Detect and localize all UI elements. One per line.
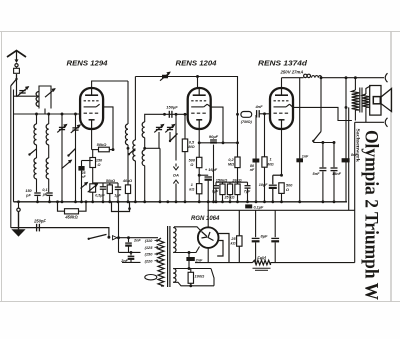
svg-text:(110: (110 — [145, 238, 153, 243]
node V2 top — [196, 75, 199, 78]
scan frame right edge — [390, 32, 392, 302]
svg-text:nF: nF — [250, 168, 255, 172]
wire loop under bus — [112, 202, 130, 212]
wire cathode branch — [273, 174, 282, 176]
svg-text:0,5µF: 0,5µF — [95, 194, 105, 198]
svg-text:MΩ: MΩ — [267, 162, 273, 166]
wire left earth line — [10, 86, 12, 228]
capacitor 2nF HT blob — [188, 253, 190, 258]
coil L8 secondary — [142, 122, 145, 138]
coil L6 anode — [125, 124, 128, 145]
wire trimmer down bus — [159, 148, 161, 202]
field coil Feld — [253, 260, 271, 265]
wire mains line 3 — [122, 261, 141, 263]
trimmer small — [81, 183, 88, 189]
wire V1 grid line — [14, 113, 82, 115]
rectifier tube RGN 1064 — [198, 227, 219, 248]
speaker horn — [381, 89, 392, 112]
capacitor 7uF bank right — [247, 182, 249, 185]
wire ground stem — [18, 212, 20, 230]
resistor 1k — [197, 184, 202, 194]
terminal hook top right — [385, 73, 387, 82]
bus2 supply rail — [208, 209, 355, 211]
wire tone link — [312, 141, 314, 143]
svg-text:100Ω: 100Ω — [195, 274, 206, 279]
svg-text:Ω: Ω — [285, 188, 289, 192]
switch S4 interstage — [129, 149, 136, 155]
switch S5 — [170, 134, 178, 142]
resistor 26k — [237, 182, 239, 184]
svg-text:DA: DA — [173, 172, 179, 177]
capacitor 8nF blob right — [342, 158, 350, 162]
arrow contact — [113, 236, 118, 240]
wire caps to bus — [37, 196, 39, 202]
node L8 bottom junction — [144, 138, 146, 149]
svg-text:25: 25 — [230, 237, 236, 241]
bus junction dots — [17, 200, 20, 203]
svg-text:150µF: 150µF — [166, 105, 178, 110]
antenna terminal circle — [15, 64, 18, 67]
coil L5 band2 — [46, 158, 49, 179]
coil L4 band2 — [34, 158, 37, 179]
wire heater top — [173, 268, 211, 270]
wire V3 anode top — [281, 78, 283, 88]
svg-text:25 kΩ: 25 kΩ — [223, 195, 234, 199]
terminal hook lower right — [385, 118, 387, 127]
output transformer core — [359, 88, 361, 113]
wire V1 anode loop down — [127, 81, 129, 124]
resistor 150k — [222, 182, 224, 184]
scan frame top edge — [0, 31, 400, 33]
svg-text:Olympia 2 Triumph W: Olympia 2 Triumph W — [361, 130, 382, 300]
svg-text:150: 150 — [96, 159, 103, 163]
svg-text:RENS 1374d: RENS 1374d — [258, 60, 308, 67]
capacitor 250pF earth — [36, 224, 38, 232]
resistor 500 Ohm cathode V2 — [197, 157, 202, 167]
svg-text:+ 16µF: + 16µF — [205, 167, 218, 172]
trimmer C5 lower — [62, 160, 72, 168]
choke RF — [310, 77, 312, 79]
wire earth line bottom — [11, 227, 98, 229]
capacitor 4nF series grid — [256, 110, 258, 117]
wire 90uF line — [199, 142, 237, 144]
svg-text:RENS 1204: RENS 1204 — [176, 60, 217, 67]
svg-text:MΩ: MΩ — [228, 163, 234, 167]
coil L2 band1 — [34, 124, 37, 145]
wire rectifier filament outer — [218, 234, 230, 263]
svg-text:RGN 1064: RGN 1064 — [191, 216, 220, 222]
svg-text:26kΩ: 26kΩ — [231, 178, 241, 182]
svg-text:450kΩ: 450kΩ — [64, 215, 78, 220]
svg-text:MΩ: MΩ — [188, 145, 194, 149]
ground symbol — [11, 229, 25, 236]
svg-text:150: 150 — [25, 189, 32, 193]
output transformer secondary — [362, 94, 369, 107]
wire cathode mid — [198, 168, 200, 184]
scan frame bottom edge — [0, 301, 400, 303]
wire bank feed — [216, 181, 248, 183]
wire V1 screen exit — [100, 104, 113, 149]
resistor 100 Ohm hum — [188, 272, 193, 283]
svg-text:(125: (125 — [145, 245, 154, 250]
wire V2 top loop — [135, 77, 197, 89]
terminal DA — [173, 164, 178, 170]
wire heater bottom — [173, 282, 214, 286]
trimmer C3 tuning — [61, 114, 63, 202]
svg-text:250pF: 250pF — [33, 218, 46, 223]
wire earth corner — [98, 228, 109, 238]
transformer T1 primary — [158, 237, 161, 239]
svg-text:40kΩ: 40kΩ — [122, 179, 132, 183]
fuse F1 — [14, 68, 20, 73]
wire V3 cathode down — [281, 129, 283, 176]
trimmer C6 — [158, 114, 160, 125]
transformer T1 HT secondary — [173, 228, 176, 253]
switch S2 band — [30, 149, 37, 155]
resistor 0,5M grid leak — [184, 114, 186, 139]
trimmer C1 antenna series — [17, 87, 29, 97]
resistor 40k bias — [127, 183, 129, 185]
scan frame left edge — [1, 32, 3, 302]
bus chassis — [14, 201, 348, 203]
resistor mid bank — [229, 182, 231, 184]
mains plug oval — [145, 275, 157, 280]
wire grid line V3 — [252, 113, 257, 115]
capacitor 0,1uF blob rails — [245, 204, 252, 208]
svg-text:(220: (220 — [145, 258, 154, 263]
svg-text:µF: µF — [42, 193, 48, 197]
coil L7 grid V2 — [133, 140, 136, 161]
wire second right line — [348, 107, 350, 210]
triode V3 RENS 1374d — [270, 88, 293, 129]
wire B+ rail right — [322, 77, 384, 79]
triode V2 RENS 1204 — [188, 88, 211, 129]
wire V1 anode top loop — [92, 81, 128, 88]
wire rect bottom — [207, 248, 209, 263]
wire L5 down to cap — [48, 179, 50, 192]
wire cathode chain — [92, 150, 94, 158]
wire heater riser — [211, 269, 214, 286]
wire coil box to grid line — [39, 108, 45, 110]
wire filter bottom rail — [195, 262, 253, 264]
node grid line dots — [163, 113, 166, 116]
ground terminal circle — [17, 208, 20, 211]
svg-text:15nF: 15nF — [332, 171, 342, 176]
switch S7 mains — [89, 234, 107, 238]
transformer T1 heater secondary — [173, 269, 176, 283]
wire branch to blob cap — [82, 160, 93, 162]
svg-text:kΩ: kΩ — [189, 188, 194, 192]
capacitor 5nF tone — [322, 143, 324, 168]
capacitor 7uF bank left — [215, 182, 217, 185]
switch S1 antenna — [11, 79, 17, 86]
svg-text:50kΩ: 50kΩ — [97, 142, 108, 147]
capacitor 2nF mains upper — [128, 238, 130, 243]
svg-text:2nF: 2nF — [133, 239, 141, 243]
switch S3 band lower — [69, 149, 76, 156]
svg-text:0,5: 0,5 — [189, 141, 195, 145]
antenna coil L1 box — [39, 86, 51, 109]
svg-text:4nF: 4nF — [254, 104, 263, 109]
antenna symbol — [7, 51, 26, 58]
svg-text:8µF: 8µF — [261, 233, 269, 238]
output transformer primary — [354, 78, 356, 90]
svg-text:Ω: Ω — [189, 163, 193, 167]
capacitor 150pF cathode left — [34, 192, 40, 194]
capacitor 80nF blob — [255, 115, 257, 159]
field coil underline — [253, 267, 271, 269]
node L6 junction — [127, 147, 130, 150]
resistor 25k bleeder — [238, 210, 240, 236]
capacitor 16uF electrolytic — [199, 174, 208, 176]
svg-text:Feld: Feld — [257, 256, 266, 261]
speaker driver — [373, 97, 380, 104]
trimmer C8 feedback — [160, 72, 170, 80]
wire V2 top loop — [134, 77, 136, 141]
svg-text:(150: (150 — [145, 252, 154, 257]
wire second left line — [13, 90, 15, 202]
svg-text:0,1: 0,1 — [42, 188, 47, 192]
svg-text:7µF: 7µF — [244, 190, 251, 194]
wire mains switch line — [118, 202, 120, 253]
wire V2 anode exit — [207, 104, 223, 143]
capacitor 15nF tone — [333, 143, 335, 168]
antenna coil L1 winding — [36, 92, 39, 107]
capacitor 8uF second — [274, 210, 276, 237]
wire long right line — [345, 78, 347, 202]
svg-text:Sachsenwerk: Sachsenwerk — [355, 129, 361, 164]
speaker frame — [366, 86, 371, 94]
svg-text:500: 500 — [189, 158, 196, 162]
wire rectifier top — [207, 202, 209, 227]
terminal circles fuse — [304, 74, 307, 77]
node antenna feed — [15, 95, 17, 97]
wire L4 down to cap — [36, 179, 38, 192]
wire antenna to coil box — [16, 74, 18, 96]
wire HT bottom to rectifier — [173, 247, 199, 253]
resistor 50k bias — [107, 185, 112, 194]
svg-text:7µF: 7µF — [212, 190, 219, 194]
svg-text:50kΩ: 50kΩ — [106, 179, 115, 183]
svg-text:pF: pF — [25, 194, 31, 198]
wire V1 cathode down — [91, 129, 93, 150]
svg-text:90µF: 90µF — [209, 134, 219, 139]
svg-text:1nF: 1nF — [302, 154, 309, 158]
svg-text:0,1µF: 0,1µF — [254, 206, 264, 210]
wire pot top link — [93, 183, 110, 185]
capacitor 90uF electrolytic — [213, 139, 215, 143]
capacitor 0,5uF — [102, 183, 104, 187]
capacitor 8uF first — [255, 210, 257, 237]
capacitor 10uF cathode — [269, 184, 277, 186]
wire V2 top loop right — [198, 77, 238, 115]
wire speaker return — [365, 107, 367, 122]
svg-text:2nF: 2nF — [195, 257, 204, 262]
svg-text:0,2: 0,2 — [228, 158, 234, 162]
capacitor 1uF — [117, 183, 119, 187]
svg-text:1: 1 — [269, 158, 271, 162]
resistor 450k loop — [58, 202, 65, 211]
trimmer C2 on antenna coil — [45, 89, 55, 97]
wire L7 down to bus — [134, 161, 136, 202]
coil L9 lower — [142, 150, 145, 166]
trimmer C7 — [169, 114, 171, 125]
resistor 1M grid leak V3 — [264, 114, 266, 157]
svg-text:1µF: 1µF — [114, 194, 121, 198]
resistor 150 Ohm cathode — [90, 158, 96, 168]
wire HT top to rectifier — [172, 226, 174, 229]
wire L6 to junction — [127, 145, 129, 185]
resistor 0,2M screen — [237, 114, 239, 157]
svg-text:Ω: Ω — [97, 163, 101, 167]
capacitor 2nF mains lower — [130, 252, 132, 255]
grid resistor 7M oval — [241, 112, 252, 118]
svg-text:5nF: 5nF — [313, 171, 321, 176]
trimmer C4 padding — [75, 114, 77, 202]
svg-text:1: 1 — [191, 183, 193, 187]
wire B+ rail — [282, 77, 304, 79]
svg-text:RENS 1294: RENS 1294 — [67, 61, 108, 68]
svg-text:500: 500 — [286, 184, 293, 188]
capacitor 25nF blob — [78, 166, 84, 171]
wire V2 cathode down — [198, 129, 200, 157]
wire plate choke drop — [320, 78, 322, 132]
svg-text:150kΩ: 150kΩ — [216, 178, 227, 182]
capacitor 0,1uF left — [46, 192, 52, 194]
node V1 cathode junction — [112, 148, 115, 151]
wire link lower — [145, 147, 160, 149]
svg-text:250V 27mA: 250V 27mA — [280, 69, 304, 74]
capacitor blob 1nF — [299, 78, 301, 202]
svg-text:(7MΩ): (7MΩ) — [241, 119, 253, 124]
svg-text:kΩ: kΩ — [231, 242, 236, 246]
potentiometer 50k volume — [90, 184, 96, 192]
wire grid line V2 horizontal — [145, 114, 188, 122]
triode V1 RENS 1294 — [80, 88, 103, 129]
svg-text:10µF: 10µF — [259, 183, 268, 187]
wire mains line 1 — [119, 237, 159, 239]
capacitor 150uF series — [168, 111, 170, 118]
resistor 500 Ohm V3 — [281, 175, 283, 183]
coil L3 band1 — [46, 124, 49, 145]
wire mains line 2 — [119, 251, 141, 253]
wire antenna to switch — [16, 74, 18, 79]
node grid line left — [35, 113, 38, 116]
resistor 50k anode H — [92, 149, 99, 151]
switch S6 tone — [313, 132, 321, 142]
transformer T1 core — [167, 226, 169, 287]
wire rectifier filament inner — [217, 241, 223, 257]
wire speaker return down — [354, 122, 356, 262]
wire V3 screen exit right — [290, 104, 352, 120]
